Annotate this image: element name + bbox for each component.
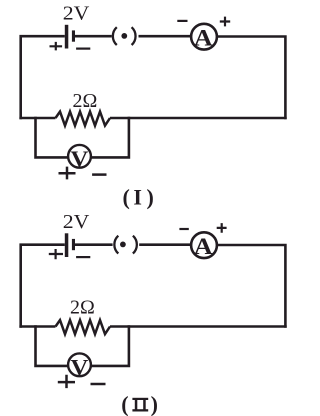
- plug key K2: right paren: [133, 236, 137, 254]
- svg-text:2V: 2V: [63, 3, 90, 25]
- label + (battery positive): [50, 42, 63, 51]
- label - (ammeter negative terminal): [177, 20, 187, 22]
- label - (ammeter II negative terminal): [179, 228, 188, 230]
- wire: key right paren to ammeter (II): [139, 243, 190, 246]
- ammeter A1: circle: [191, 24, 217, 50]
- label - (battery II negative): [76, 256, 90, 258]
- wire: voltmeter branch right leg: [91, 117, 129, 158]
- battery B2 2V: long positive plate: [65, 233, 69, 257]
- resistor R2 2ohm: zigzag: [56, 320, 111, 334]
- svg-text:A: A: [194, 26, 213, 51]
- wire: battery - plate to key left paren: [75, 35, 112, 38]
- label + (voltmeter II positive): [58, 375, 75, 388]
- wire: top-left from battery + plate to left corner, down left side: [21, 36, 65, 119]
- svg-text:V: V: [71, 355, 89, 380]
- wire: bottom row right, from resistor end to right corner: [110, 117, 287, 120]
- label + (battery II positive): [49, 249, 63, 259]
- label - (voltmeter negative): [92, 173, 106, 176]
- svg-text:V: V: [71, 146, 89, 171]
- wire: top-left from battery + plate to left corner, down left side (II): [21, 245, 65, 328]
- wire: bottom row right (II): [110, 325, 287, 328]
- plug key K1: dot: [121, 33, 127, 39]
- label + (ammeter positive terminal): [220, 17, 230, 27]
- wire: ammeter to top-right corner, down right side (II): [218, 245, 286, 328]
- label + (ammeter II positive terminal): [217, 223, 227, 233]
- plug key K1: right paren: [132, 27, 136, 45]
- battery B2 2V: short negative plate: [72, 239, 75, 250]
- battery B1 2V: short negative plate: [72, 30, 75, 41]
- svg-text:(I): (I): [123, 185, 154, 210]
- wire: bottom row left (II): [19, 325, 55, 328]
- battery B1 2V: long positive plate: [65, 25, 69, 49]
- svg-text:A: A: [194, 234, 213, 259]
- plug key K2: left paren: [114, 236, 118, 254]
- resistor R1 2ohm: zigzag: [56, 112, 111, 126]
- label (II) roman numeral bars: [132, 398, 148, 412]
- svg-text:2V: 2V: [63, 211, 90, 233]
- label - (voltmeter II negative): [91, 383, 106, 386]
- svg-text:2Ω: 2Ω: [73, 90, 98, 112]
- wire: voltmeter branch left leg: [36, 117, 69, 158]
- wire: key right paren to ammeter: [139, 35, 191, 38]
- label + (voltmeter positive): [59, 167, 76, 180]
- wire: bottom row left, from left corner to resistor start: [19, 117, 55, 120]
- voltmeter V1: circle: [68, 145, 91, 168]
- plug key K1: left paren: [113, 27, 117, 45]
- svg-text:2Ω: 2Ω: [70, 296, 95, 318]
- ammeter A2: circle: [191, 232, 217, 258]
- svg-text:(): (): [121, 391, 158, 416]
- wire: voltmeter II branch right leg: [91, 325, 129, 366]
- plug key K2: dot: [120, 242, 126, 248]
- voltmeter V2: circle: [68, 353, 91, 376]
- wire: voltmeter II branch left leg: [36, 325, 69, 366]
- wire: ammeter to top-right corner, down right side: [218, 37, 286, 120]
- wire: battery - plate to key left paren (II): [75, 243, 113, 246]
- label - (battery negative): [76, 47, 90, 49]
